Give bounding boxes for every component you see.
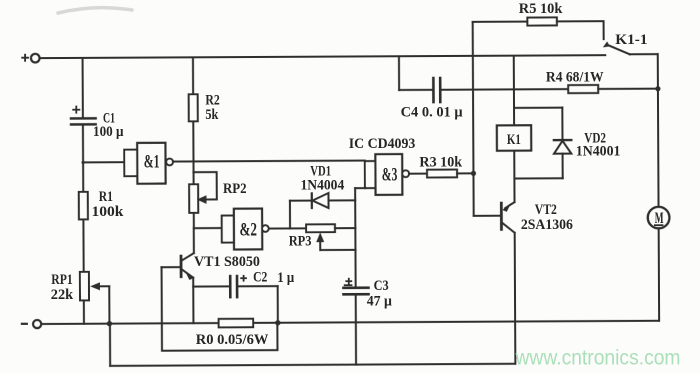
transistor VT2: [501, 202, 514, 233]
wire column R5 to VT2 base: [473, 22, 474, 216]
svg-text:K1-1: K1-1: [615, 32, 647, 48]
resistor R0: [219, 319, 254, 328]
svg-text:C4 0. 01 μ: C4 0. 01 μ: [401, 104, 464, 120]
wire C4/R4 row: [440, 88, 568, 91]
wire node column VD1/RP3/C3: [354, 188, 357, 287]
resistor R4: [568, 85, 598, 93]
wire R0 sense bracket: [162, 267, 278, 351]
terminal -: [33, 320, 41, 328]
diode VD1: [312, 193, 329, 208]
svg-text:100 μ: 100 μ: [93, 123, 124, 140]
wire R3 to column: [457, 172, 473, 174]
wire VD1 row left: [290, 200, 312, 202]
wire VT1 emitter down: [192, 278, 194, 324]
junction dot R3/column: [471, 171, 476, 176]
wire &2 output to RP3: [269, 227, 306, 229]
svg-text:R3 10k: R3 10k: [419, 154, 463, 170]
wire wiper bridge: [320, 249, 355, 251]
svg-text:&2: &2: [240, 218, 257, 240]
smudge artifact top-left: [58, 8, 132, 13]
capacitor C1: [71, 118, 96, 124]
wire bottom return: [110, 364, 515, 366]
wire RP1 wiper down to rail: [108, 286, 110, 323]
wire R4 right: [598, 88, 658, 90]
svg-text:&3: &3: [382, 165, 398, 185]
capacitor C3: [343, 288, 368, 295]
wire - rail: [41, 321, 659, 324]
relay K1: [497, 125, 531, 150]
svg-text:www.cntronics.com: www.cntronics.com: [515, 347, 681, 370]
wire C2 right down: [277, 286, 279, 323]
wire &3 output: [409, 173, 427, 175]
svg-text:VT1 S8050: VT1 S8050: [194, 254, 260, 271]
RP2 wiper bracket: [194, 172, 217, 204]
wire right column upper: [657, 54, 660, 207]
svg-text:M: M: [655, 208, 664, 226]
potentiometer RP3: [306, 224, 335, 232]
resistor R5: [473, 17, 604, 26]
wire junction to VT1 collector: [193, 228, 195, 253]
wire R2 to RP2: [192, 121, 194, 184]
wire rail down to bottom wire: [109, 324, 111, 366]
wire R2 column top: [192, 57, 194, 94]
wire RP2 to &2 junction: [193, 213, 195, 228]
wire motor bottom: [658, 228, 660, 320]
RP3 wiper arrow: [316, 232, 324, 250]
wire VD1 row right: [329, 199, 356, 201]
svg-text:VT2: VT2: [535, 200, 557, 217]
svg-text:RP1: RP1: [51, 271, 73, 288]
resistor R3: [427, 170, 457, 178]
wire K1 column from rail: [513, 56, 515, 126]
gate U1C &3 input bottom: [355, 187, 365, 189]
svg-text:22k: 22k: [51, 287, 74, 303]
wire C4 row left: [399, 89, 433, 91]
wire K1/VD2 top bridge: [514, 107, 562, 109]
label C2 polarity +: [240, 275, 247, 282]
svg-text:R4 68/1W: R4 68/1W: [546, 69, 604, 86]
wire switch to right column: [630, 53, 658, 55]
svg-text:R1: R1: [99, 187, 113, 204]
svg-text:&1: &1: [144, 152, 160, 172]
wire R5 right leg: [603, 21, 605, 39]
switch K1-1: [603, 41, 630, 54]
label - terminal: [21, 323, 28, 325]
wire K1/VD2 bottom bridge: [514, 177, 562, 179]
wire left column top (rail to C1): [82, 58, 84, 118]
svg-text:1N4004: 1N4004: [301, 177, 345, 194]
wire RP1 to - rail: [83, 300, 85, 323]
wire &1 output to &3 input: [173, 161, 365, 162]
junction dot C2/rail: [275, 320, 280, 325]
wire VT2 base: [474, 215, 501, 217]
svg-text:2SA1306: 2SA1306: [521, 216, 573, 233]
svg-text:C3: C3: [374, 277, 389, 293]
capacitor C4: [433, 78, 440, 102]
terminal +: [31, 54, 40, 63]
RP1 wiper arrow: [90, 282, 109, 290]
gate U1B &2: [222, 209, 269, 250]
svg-text:1N4001: 1N4001: [576, 143, 621, 160]
wire RP3 right: [335, 227, 355, 229]
junction dot rail/wiper: [107, 321, 112, 326]
wire VT2 collector down: [514, 233, 517, 364]
svg-text:IC CD4093: IC CD4093: [349, 136, 416, 153]
wire + rail: [40, 55, 606, 58]
svg-text:R5 10k: R5 10k: [519, 1, 563, 17]
wire K1 bottom: [513, 151, 515, 202]
svg-text:K1: K1: [507, 130, 521, 147]
node A junction: [81, 161, 84, 164]
capacitor C2: [193, 276, 278, 297]
svg-text:RP2: RP2: [223, 181, 247, 197]
wire R1 to RP1: [82, 219, 84, 271]
transistor VT1: [161, 253, 194, 280]
motor M: [648, 207, 670, 229]
svg-text:100k: 100k: [92, 203, 124, 220]
svg-text:1 μ: 1 μ: [277, 270, 294, 286]
svg-text:RP3: RP3: [289, 232, 312, 248]
label C3 polarity +-: [344, 278, 353, 285]
wire C4 left riser: [398, 56, 400, 90]
potentiometer RP1: [80, 272, 89, 301]
svg-text:R0 0.05/6W: R0 0.05/6W: [196, 332, 269, 348]
wire &2 input: [194, 227, 222, 229]
svg-text:5k: 5k: [205, 106, 218, 122]
gate U1A &1: [124, 143, 173, 184]
svg-text:47 μ: 47 μ: [367, 293, 392, 310]
wire C1 to node A: [82, 124, 84, 191]
resistor R2: [189, 94, 198, 121]
resistor R1: [79, 192, 88, 220]
label + terminal: [21, 54, 29, 62]
diode VD2: [554, 108, 572, 179]
label M underline: [654, 224, 663, 226]
potentiometer RP2: [189, 184, 198, 213]
wire VD1 left riser: [289, 201, 291, 229]
svg-text:C2: C2: [253, 268, 267, 285]
label C1 polarity +: [72, 106, 80, 114]
gate U1C &3: [365, 154, 409, 195]
wire C3 down to bottom wire: [355, 294, 357, 364]
junction dot R4/right column: [655, 86, 660, 91]
gate U1A input wire: [83, 161, 124, 163]
